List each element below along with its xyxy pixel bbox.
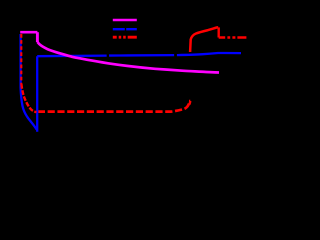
- red curve: dashed vertical drop at left (drawn over blue vertical): [20, 34, 22, 84]
- red curve: drop from upper plateau: [217, 27, 219, 37]
- legend red dashed line sample: [113, 36, 137, 39]
- blue curve: solid vertical under red dashes, decay to minimum: [21, 34, 37, 130]
- blue curve: fast recovery vertical: [36, 56, 38, 132]
- red curve: dashed decay elbow toward lower plateau: [21, 84, 36, 112]
- legend magenta solid line sample: [113, 19, 137, 22]
- red curve: steep rise upper segment and shoulder: [190, 27, 218, 52]
- magenta curve: step down: [36, 32, 39, 42]
- magenta curve: initial high plateau: [20, 31, 37, 34]
- red curve: upper dashed tail: [219, 36, 247, 38]
- magenta curve: slow log-like decay: [37, 42, 219, 73]
- red curve: lower dashed plateau: [38, 104, 189, 112]
- legend blue long-dash line sample: [113, 28, 137, 30]
- red curve: steep rise lower hook: [189, 101, 190, 105]
- blue curve: upper flat with long dashes, slight rise to the right: [37, 53, 241, 56]
